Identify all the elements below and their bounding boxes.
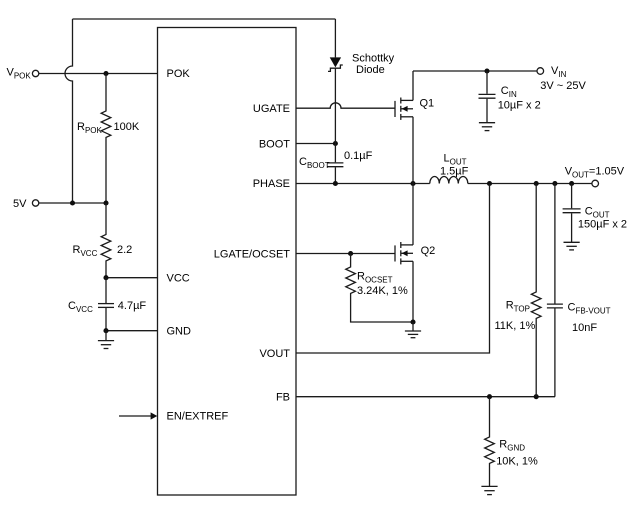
svg-text:3.24K, 1%: 3.24K, 1% (357, 285, 408, 297)
svg-text:EN/EXTREF: EN/EXTREF (167, 410, 229, 422)
svg-text:CVCC: CVCC (68, 300, 93, 314)
wire FB net (296, 396, 555, 398)
svg-text:CIN: CIN (501, 85, 517, 99)
wire VOUT sense (296, 184, 490, 354)
svg-text:10µF x 2: 10µF x 2 (498, 100, 541, 112)
node VPOK junction (103, 71, 108, 76)
capacitor CIN (486, 71, 488, 94)
svg-text:Diode: Diode (356, 64, 385, 76)
arrowhead EN input (151, 412, 158, 419)
node VCC junction (103, 275, 108, 280)
node VIN CIN junction (484, 68, 489, 73)
svg-text:UGATE: UGATE (253, 103, 290, 115)
wire GND pin (106, 330, 158, 332)
svg-text:Q1: Q1 (420, 98, 435, 110)
svg-text:BOOT: BOOT (259, 138, 290, 150)
svg-text:2.2: 2.2 (117, 244, 132, 256)
node PHASE Q1 junction (410, 181, 415, 186)
svg-text:VPOK: VPOK (7, 67, 32, 81)
ground Q2 (412, 322, 414, 331)
capacitor COUT (571, 184, 573, 209)
resistor ROCSET (346, 254, 413, 323)
svg-text:LGATE/OCSET: LGATE/OCSET (214, 248, 290, 260)
svg-text:RPOK: RPOK (77, 121, 103, 135)
wire VCC pin (106, 277, 158, 279)
node FB RTOP junction (534, 394, 539, 399)
svg-text:CBOOT: CBOOT (299, 156, 330, 170)
svg-text:11K, 1%: 11K, 1% (495, 320, 536, 332)
wire Q1 drain up (412, 71, 414, 100)
svg-text:5V: 5V (13, 198, 27, 210)
svg-text:1.5µF: 1.5µF (440, 166, 469, 178)
svg-text:ROCSET: ROCSET (357, 271, 393, 285)
svg-text:VIN: VIN (551, 65, 567, 79)
svg-text:150µF x 2: 150µF x 2 (578, 219, 627, 231)
node 5V vertical junction (70, 200, 75, 205)
svg-text:VOUT=1.05V: VOUT=1.05V (565, 166, 625, 180)
ground COUT (564, 241, 580, 243)
capacitor CBOOT (334, 144, 336, 163)
wire Q2 source down (412, 261, 414, 322)
svg-text:Schottky: Schottky (352, 53, 395, 65)
terminal VPOK (32, 70, 38, 76)
wire LGATE/OCSET to Q2 gate (296, 253, 395, 255)
terminal 5V (32, 200, 38, 206)
resistor RVCC (101, 203, 111, 278)
wire output rail (468, 183, 592, 185)
ground CIN (479, 122, 495, 124)
wire top rail from 5V branch to schottky anode (73, 18, 336, 20)
wire Q2 drain to PHASE (412, 184, 414, 245)
node PHASE CBOOT junction (333, 181, 338, 186)
svg-text:10nF: 10nF (572, 322, 597, 334)
diode D1 schottky (334, 19, 336, 57)
ground RGND (481, 485, 497, 487)
wire VIN rail (413, 70, 537, 72)
resistor RPOK (101, 74, 111, 204)
svg-text:RGND: RGND (499, 439, 525, 453)
transistor Q1 (394, 101, 396, 117)
transistor Q2 (394, 245, 396, 261)
svg-text:VOUT: VOUT (259, 348, 290, 360)
node LGATE ROCSET junction (348, 251, 353, 256)
node Q2 source junction (410, 319, 415, 324)
terminal VIN (537, 68, 544, 75)
svg-text:PHASE: PHASE (253, 178, 290, 190)
node rail RTOP junction (534, 181, 539, 186)
svg-text:10K, 1%: 10K, 1% (496, 456, 538, 468)
wire UGATE to Q1 gate with hop (296, 103, 395, 108)
node BOOT junction (333, 141, 338, 146)
svg-text:3V ~ 25V: 3V ~ 25V (540, 80, 586, 92)
wire BOOT pin (296, 143, 335, 145)
wire 5V to RVCC branch (39, 202, 106, 204)
wire PHASE pin to inductor (296, 183, 430, 185)
capacitor CVCC (105, 278, 107, 303)
wire vertical 5V feed with hop over VPOK wire (65, 19, 73, 203)
svg-text:100K: 100K (114, 121, 140, 133)
terminal VOUT (592, 180, 599, 187)
node rail COUT junction (569, 181, 574, 186)
ground CVCC (105, 331, 107, 341)
node rail VOUT-sense junction (487, 181, 492, 186)
node GND junction (103, 328, 108, 333)
node rail CFB junction (552, 181, 557, 186)
node 5V RVCC junction (103, 200, 108, 205)
svg-text:POK: POK (167, 68, 191, 80)
wire VPOK to POK pin (39, 73, 158, 75)
svg-text:CFB-VOUT: CFB-VOUT (568, 302, 611, 316)
svg-text:VCC: VCC (167, 272, 190, 284)
capacitor CFB-VOUT (554, 184, 556, 304)
svg-text:RVCC: RVCC (73, 244, 98, 258)
node FB RGND junction (487, 394, 492, 399)
op-amp U1 IC body (158, 28, 297, 496)
svg-text:GND: GND (167, 325, 192, 337)
svg-text:RTOP: RTOP (506, 300, 530, 314)
svg-text:4.7µF: 4.7µF (118, 300, 147, 312)
inductor LOUT (430, 177, 468, 184)
resistor RGND (485, 397, 495, 487)
svg-text:FB: FB (276, 392, 290, 404)
wire EN arrow input (119, 415, 151, 417)
resistor RTOP (531, 184, 541, 397)
svg-text:0.1µF: 0.1µF (344, 150, 373, 162)
wire Q1 source to PHASE (412, 117, 414, 184)
svg-text:Q2: Q2 (421, 245, 436, 257)
